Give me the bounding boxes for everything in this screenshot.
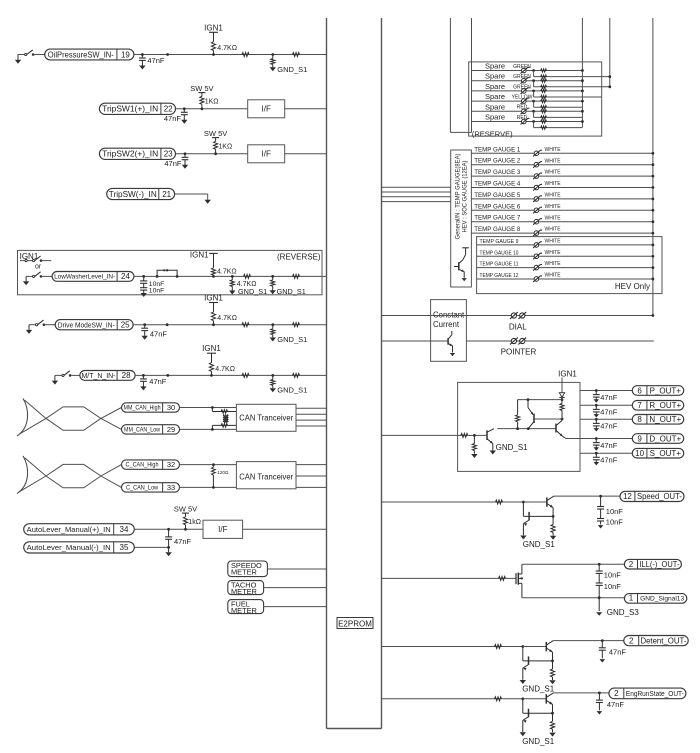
svg-text:WHITE: WHITE	[545, 227, 562, 233]
svg-text:12: 12	[623, 492, 632, 501]
svg-text:DIAL: DIAL	[509, 323, 527, 332]
svg-text:GND_S1: GND_S1	[496, 443, 529, 452]
svg-text:METER: METER	[231, 567, 257, 576]
svg-text:C_CAN_High: C_CAN_High	[126, 463, 159, 469]
svg-text:1kΩ: 1kΩ	[188, 519, 201, 526]
svg-text:Drive ModeSW_IN-: Drive ModeSW_IN-	[58, 320, 115, 329]
svg-text:34: 34	[120, 525, 129, 534]
svg-text:MM_CAN_High: MM_CAN_High	[124, 406, 161, 412]
svg-text:7: 7	[637, 401, 642, 410]
svg-text:TEMP GAUGE 1: TEMP GAUGE 1	[474, 146, 520, 153]
svg-text:4.7KΩ: 4.7KΩ	[217, 315, 237, 322]
svg-text:35: 35	[120, 543, 129, 552]
svg-text:General/N : TEMP GAUGE(8EA): General/N : TEMP GAUGE(8EA)	[455, 153, 462, 239]
svg-text:47nF: 47nF	[600, 441, 618, 450]
svg-text:HEV Only: HEV Only	[615, 282, 650, 291]
svg-text:GND_S1: GND_S1	[238, 287, 267, 296]
svg-text:TripSW2(+)_IN: TripSW2(+)_IN	[102, 150, 158, 159]
svg-text:2: 2	[614, 689, 619, 698]
svg-text:TEMP GAUGE 10: TEMP GAUGE 10	[480, 250, 519, 256]
svg-text:AutoLever_Manual(-)_IN: AutoLever_Manual(-)_IN	[27, 543, 111, 552]
svg-text:GND_S1: GND_S1	[523, 540, 556, 549]
svg-text:IGN1: IGN1	[204, 23, 223, 32]
svg-text:10nF: 10nF	[149, 288, 165, 295]
svg-text:TEMP GAUGE 11: TEMP GAUGE 11	[480, 262, 519, 268]
svg-text:GND_S3: GND_S3	[607, 608, 640, 617]
svg-text:GND_S1: GND_S1	[277, 335, 307, 344]
svg-text:6: 6	[637, 386, 642, 395]
svg-text:OilPressureSW_IN-: OilPressureSW_IN-	[48, 50, 114, 59]
svg-text:10nF: 10nF	[606, 517, 624, 526]
svg-text:29: 29	[167, 425, 175, 434]
svg-text:S_OUT+: S_OUT+	[650, 449, 682, 458]
svg-text:47nF: 47nF	[149, 377, 167, 386]
svg-text:TEMP GAUGE 7: TEMP GAUGE 7	[474, 215, 520, 222]
svg-text:AutoLever_Manual(+)_IN: AutoLever_Manual(+)_IN	[27, 525, 111, 534]
svg-text:4.7KΩ: 4.7KΩ	[217, 45, 237, 52]
svg-text:47nF: 47nF	[600, 456, 618, 465]
svg-text:10nF: 10nF	[606, 507, 624, 516]
svg-text:I/F: I/F	[262, 150, 271, 159]
svg-text:IGN1: IGN1	[204, 294, 223, 303]
svg-text:(RESERVE): (RESERVE)	[472, 129, 513, 138]
svg-text:WHITE: WHITE	[545, 204, 562, 210]
svg-text:METER: METER	[231, 606, 257, 615]
svg-text:9: 9	[637, 434, 642, 443]
svg-text:GND_S1: GND_S1	[277, 287, 306, 296]
svg-text:1: 1	[629, 594, 634, 603]
svg-text:Spare: Spare	[485, 102, 505, 111]
svg-text:TEMP GAUGE 12: TEMP GAUGE 12	[480, 273, 519, 279]
svg-text:SW 5V: SW 5V	[190, 84, 213, 93]
svg-text:C_CAN_Low: C_CAN_Low	[126, 486, 159, 492]
svg-text:TEMP GAUGE 5: TEMP GAUGE 5	[474, 192, 520, 199]
svg-text:SW 5V: SW 5V	[204, 129, 227, 138]
svg-text:N_OUT+: N_OUT+	[649, 415, 681, 424]
svg-text:GND_S1: GND_S1	[522, 737, 555, 746]
svg-text:47nF: 47nF	[607, 700, 625, 709]
svg-text:SW 5V: SW 5V	[174, 505, 197, 514]
svg-text:M/T_N_IN-: M/T_N_IN-	[82, 371, 116, 380]
svg-text:32: 32	[167, 460, 175, 469]
svg-text:ILL(-)_OUT-: ILL(-)_OUT-	[639, 560, 679, 569]
svg-text:47nF: 47nF	[164, 114, 182, 123]
svg-text:I/F: I/F	[218, 525, 227, 534]
svg-text:47nF: 47nF	[609, 648, 627, 657]
svg-text:Speed_OUT-: Speed_OUT-	[637, 492, 682, 501]
svg-text:25: 25	[121, 321, 130, 330]
svg-text:1KΩ: 1KΩ	[205, 99, 219, 106]
svg-text:Spare: Spare	[485, 62, 505, 71]
svg-text:POINTER: POINTER	[501, 347, 537, 356]
svg-text:HEV : SOC GAUGE (12EA): HEV : SOC GAUGE (12EA)	[462, 160, 469, 232]
svg-text:WHITE: WHITE	[545, 181, 562, 187]
svg-text:WHITE: WHITE	[545, 170, 562, 176]
svg-text:WHITE: WHITE	[545, 239, 562, 245]
svg-text:47nF: 47nF	[600, 393, 618, 402]
svg-text:22: 22	[164, 105, 173, 114]
svg-text:TEMP GAUGE 4: TEMP GAUGE 4	[474, 181, 520, 188]
svg-text:GND_S1: GND_S1	[277, 65, 307, 74]
svg-text:TEMP GAUGE 8: TEMP GAUGE 8	[474, 226, 520, 233]
svg-text:(REVERSE): (REVERSE)	[277, 253, 321, 262]
svg-text:CAN Tranceiver: CAN Tranceiver	[239, 414, 293, 423]
svg-text:E2PROM: E2PROM	[338, 619, 372, 628]
svg-text:EngRunState_OUT-: EngRunState_OUT-	[626, 691, 685, 698]
svg-text:Detent_OUT-: Detent_OUT-	[640, 636, 686, 645]
svg-text:P_OUT+: P_OUT+	[650, 386, 682, 395]
svg-text:WHITE: WHITE	[545, 193, 562, 199]
svg-text:TEMP GAUGE 2: TEMP GAUGE 2	[474, 158, 520, 165]
svg-text:WHITE: WHITE	[545, 147, 562, 153]
svg-text:10nF: 10nF	[604, 582, 622, 591]
svg-text:47nF: 47nF	[600, 422, 618, 431]
svg-text:8: 8	[637, 415, 642, 424]
svg-text:47nF: 47nF	[600, 408, 618, 417]
svg-text:4.7KΩ: 4.7KΩ	[217, 269, 237, 276]
svg-text:LowWasherLevel_IN-: LowWasherLevel_IN-	[54, 274, 115, 281]
svg-text:GND_S1: GND_S1	[522, 685, 555, 694]
svg-text:IGN1: IGN1	[558, 369, 577, 378]
svg-text:120Ω: 120Ω	[217, 470, 229, 475]
svg-text:CAN Tranceiver: CAN Tranceiver	[239, 473, 293, 482]
svg-text:GND_Signal13: GND_Signal13	[640, 596, 684, 603]
svg-text:R_OUT+: R_OUT+	[649, 401, 681, 410]
svg-text:Spare: Spare	[485, 82, 505, 91]
svg-text:2: 2	[629, 560, 634, 569]
svg-text:23: 23	[164, 150, 173, 159]
svg-text:IGN1: IGN1	[202, 344, 221, 353]
svg-text:19: 19	[121, 50, 130, 59]
svg-text:IGN1: IGN1	[190, 250, 209, 259]
svg-text:TEMP GAUGE 3: TEMP GAUGE 3	[474, 169, 520, 176]
svg-text:30: 30	[167, 403, 175, 412]
svg-text:D_OUT+: D_OUT+	[649, 434, 681, 443]
svg-text:TEMP GAUGE 6: TEMP GAUGE 6	[474, 203, 520, 210]
svg-text:TripSW(-)_IN: TripSW(-)_IN	[109, 190, 157, 199]
svg-text:I/F: I/F	[262, 105, 271, 114]
svg-text:21: 21	[162, 190, 171, 199]
svg-text:47nF: 47nF	[150, 330, 168, 339]
svg-text:WHITE: WHITE	[545, 261, 562, 267]
svg-text:Spare: Spare	[485, 113, 505, 122]
svg-text:or: or	[35, 264, 42, 271]
svg-text:24: 24	[121, 272, 130, 281]
svg-text:Current: Current	[433, 320, 460, 329]
svg-text:47nF: 47nF	[164, 159, 182, 168]
svg-text:10nF: 10nF	[604, 571, 622, 580]
svg-text:WHITE: WHITE	[545, 158, 562, 164]
svg-text:Spare: Spare	[485, 92, 505, 101]
svg-text:WHITE: WHITE	[545, 250, 562, 256]
svg-text:Spare: Spare	[485, 72, 505, 81]
svg-text:28: 28	[122, 371, 131, 380]
svg-text:47nF: 47nF	[147, 56, 165, 65]
svg-text:TEMP GAUGE 9: TEMP GAUGE 9	[480, 239, 519, 245]
svg-text:WHITE: WHITE	[545, 215, 562, 221]
svg-text:2: 2	[629, 636, 634, 645]
svg-text:WHITE: WHITE	[545, 273, 562, 279]
svg-text:GND_S1: GND_S1	[277, 386, 307, 395]
svg-text:10: 10	[635, 449, 644, 458]
svg-text:TripSW1(+)_IN: TripSW1(+)_IN	[102, 105, 158, 114]
svg-text:METER: METER	[231, 587, 257, 596]
svg-text:4.7KΩ: 4.7KΩ	[215, 366, 235, 373]
svg-text:33: 33	[167, 483, 175, 492]
svg-text:47nF: 47nF	[174, 537, 192, 546]
svg-text:1KΩ: 1KΩ	[218, 144, 232, 151]
svg-text:MM_CAN_Low: MM_CAN_Low	[124, 428, 161, 434]
